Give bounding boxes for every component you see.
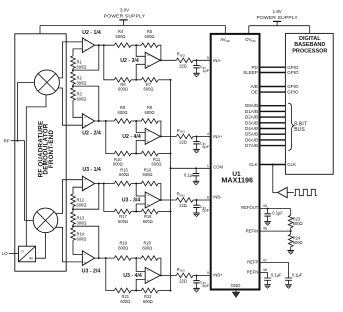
svg-text:INB+: INB+ <box>213 273 223 278</box>
svg-text:600Ω: 600Ω <box>113 162 123 167</box>
svg-text:U2 - 4/4: U2 - 4/4 <box>122 134 141 140</box>
svg-text:600Ω: 600Ω <box>77 202 87 207</box>
svg-text:MAX1196: MAX1196 <box>221 175 253 184</box>
svg-text:DIGITAL: DIGITAL <box>299 36 321 42</box>
svg-text:PROCESSOR: PROCESSOR <box>292 49 327 55</box>
svg-text:D5A/B: D5A/B <box>245 132 258 137</box>
svg-text:INA+: INA+ <box>213 134 223 139</box>
svg-text:+: + <box>147 203 150 208</box>
svg-text:600Ω: 600Ω <box>118 87 128 92</box>
svg-text:LO: LO <box>2 251 8 256</box>
svg-text:22Ω: 22Ω <box>179 64 187 69</box>
svg-text:0.1µF: 0.1µF <box>272 211 283 216</box>
svg-text:INA-: INA- <box>213 58 222 63</box>
svg-text:5pF: 5pF <box>202 144 209 149</box>
svg-text:600Ω: 600Ω <box>77 65 87 70</box>
svg-text:REFIN: REFIN <box>246 228 259 233</box>
svg-text:47: 47 <box>263 258 267 262</box>
svg-text:−: − <box>84 185 87 190</box>
svg-text:+: + <box>84 39 87 44</box>
svg-text:D0A/B: D0A/B <box>245 103 258 108</box>
svg-text:300Ω: 300Ω <box>77 81 87 86</box>
svg-text:U2 - 1/4: U2 - 1/4 <box>82 30 101 36</box>
svg-text:BUS: BUS <box>294 127 305 133</box>
svg-text:600Ω: 600Ω <box>119 172 129 177</box>
svg-text:BASEBAND: BASEBAND <box>294 42 325 48</box>
svg-text:0.1µF: 0.1µF <box>271 272 282 277</box>
svg-text:+: + <box>84 123 87 128</box>
svg-text:+: + <box>147 139 150 144</box>
svg-text:GND: GND <box>231 283 241 288</box>
svg-text:3.0V: 3.0V <box>120 8 129 13</box>
svg-text:600Ω: 600Ω <box>77 236 87 241</box>
svg-text:POWER SUPPLY: POWER SUPPLY <box>256 15 298 21</box>
svg-text:600Ω: 600Ω <box>145 34 155 39</box>
svg-text:COM: COM <box>213 164 223 169</box>
svg-text:−: − <box>147 268 150 273</box>
svg-text:−: − <box>84 47 87 52</box>
svg-text:D1A/B: D1A/B <box>245 109 258 114</box>
svg-text:+: + <box>84 260 87 265</box>
svg-text:RF: RF <box>4 139 10 144</box>
svg-text:SLEEP: SLEEP <box>243 70 258 75</box>
svg-text:−: − <box>147 193 150 198</box>
svg-text:U3 - 2/4: U3 - 2/4 <box>82 269 101 275</box>
svg-text:0.1µF: 0.1µF <box>292 272 303 277</box>
svg-text:22Ω: 22Ω <box>179 140 187 145</box>
svg-text:600Ω: 600Ω <box>142 246 152 251</box>
svg-text:+: + <box>84 177 87 182</box>
svg-text:45: 45 <box>263 204 267 208</box>
svg-text:22Ω: 22Ω <box>179 279 187 284</box>
svg-text:FRONT-END: FRONT-END <box>48 130 55 169</box>
svg-text:GPIO: GPIO <box>287 70 299 75</box>
svg-text:0: 0 <box>22 250 24 254</box>
svg-text:GPIO: GPIO <box>287 65 299 70</box>
svg-text:600Ω: 600Ω <box>77 97 87 102</box>
svg-text:600Ω: 600Ω <box>118 246 128 251</box>
svg-text:600Ω: 600Ω <box>152 162 162 167</box>
svg-text:90: 90 <box>29 257 33 261</box>
svg-text:48: 48 <box>263 268 267 272</box>
svg-text:600Ω: 600Ω <box>145 110 155 115</box>
svg-text:INB-: INB- <box>213 194 222 199</box>
svg-text:A/B: A/B <box>251 84 258 89</box>
svg-text:600Ω: 600Ω <box>120 299 130 304</box>
svg-text:1: 1 <box>207 164 209 168</box>
svg-text:9: 9 <box>207 271 209 275</box>
svg-text:300Ω: 300Ω <box>77 220 87 225</box>
svg-text:−: − <box>84 252 87 257</box>
svg-text:REFP: REFP <box>247 260 258 265</box>
svg-text:D3A/B: D3A/B <box>245 120 258 125</box>
svg-text:5: 5 <box>207 56 209 60</box>
svg-text:5pF: 5pF <box>202 283 209 288</box>
svg-text:U3 - 1/4: U3 - 1/4 <box>82 167 101 173</box>
svg-text:+: + <box>147 63 150 68</box>
svg-text:D2A/B: D2A/B <box>245 115 258 120</box>
svg-text:600Ω: 600Ω <box>143 219 153 224</box>
svg-text:CLK: CLK <box>249 162 258 167</box>
svg-text:8: 8 <box>207 196 209 200</box>
svg-text:600Ω: 600Ω <box>116 34 126 39</box>
svg-text:D4A/B: D4A/B <box>245 126 258 131</box>
svg-text:−: − <box>84 115 87 120</box>
svg-text:600Ω: 600Ω <box>293 240 303 245</box>
svg-text:46: 46 <box>263 227 267 231</box>
svg-text:600Ω: 600Ω <box>144 87 154 92</box>
svg-text:+: + <box>147 278 150 283</box>
svg-text:1pF: 1pF <box>202 68 209 73</box>
svg-text:600Ω: 600Ω <box>143 172 153 177</box>
svg-text:5pF: 5pF <box>202 208 209 213</box>
svg-text:600Ω: 600Ω <box>143 299 153 304</box>
svg-text:U2 - 2/4: U2 - 2/4 <box>82 131 101 137</box>
svg-text:U2 - 3/4: U2 - 3/4 <box>120 58 139 64</box>
svg-text:600Ω: 600Ω <box>118 219 128 224</box>
svg-text:GPIO: GPIO <box>287 84 299 89</box>
svg-text:REFOUT: REFOUT <box>241 205 259 210</box>
svg-text:600Ω: 600Ω <box>293 221 303 226</box>
svg-text:U3 - 3/4: U3 - 3/4 <box>122 198 141 204</box>
svg-text:0.1µF: 0.1µF <box>184 172 195 177</box>
svg-text:4: 4 <box>207 132 209 136</box>
svg-text:22Ω: 22Ω <box>179 203 187 208</box>
svg-text:PD: PD <box>252 65 259 70</box>
svg-text:1.8V: 1.8V <box>273 9 282 14</box>
svg-text:D6A/B: D6A/B <box>245 137 258 142</box>
svg-text:OE: OE <box>251 90 258 95</box>
svg-text:GPIO: GPIO <box>287 90 299 95</box>
svg-text:REFN: REFN <box>247 270 258 275</box>
svg-text:U3 - 4/4: U3 - 4/4 <box>123 273 142 279</box>
svg-text:−: − <box>147 129 150 134</box>
svg-text:600Ω: 600Ω <box>118 110 128 115</box>
svg-text:CLK: CLK <box>287 162 296 167</box>
svg-text:D7A/B: D7A/B <box>245 143 258 148</box>
svg-text:−: − <box>147 53 150 58</box>
svg-text:POWER SUPPLY: POWER SUPPLY <box>104 14 146 20</box>
